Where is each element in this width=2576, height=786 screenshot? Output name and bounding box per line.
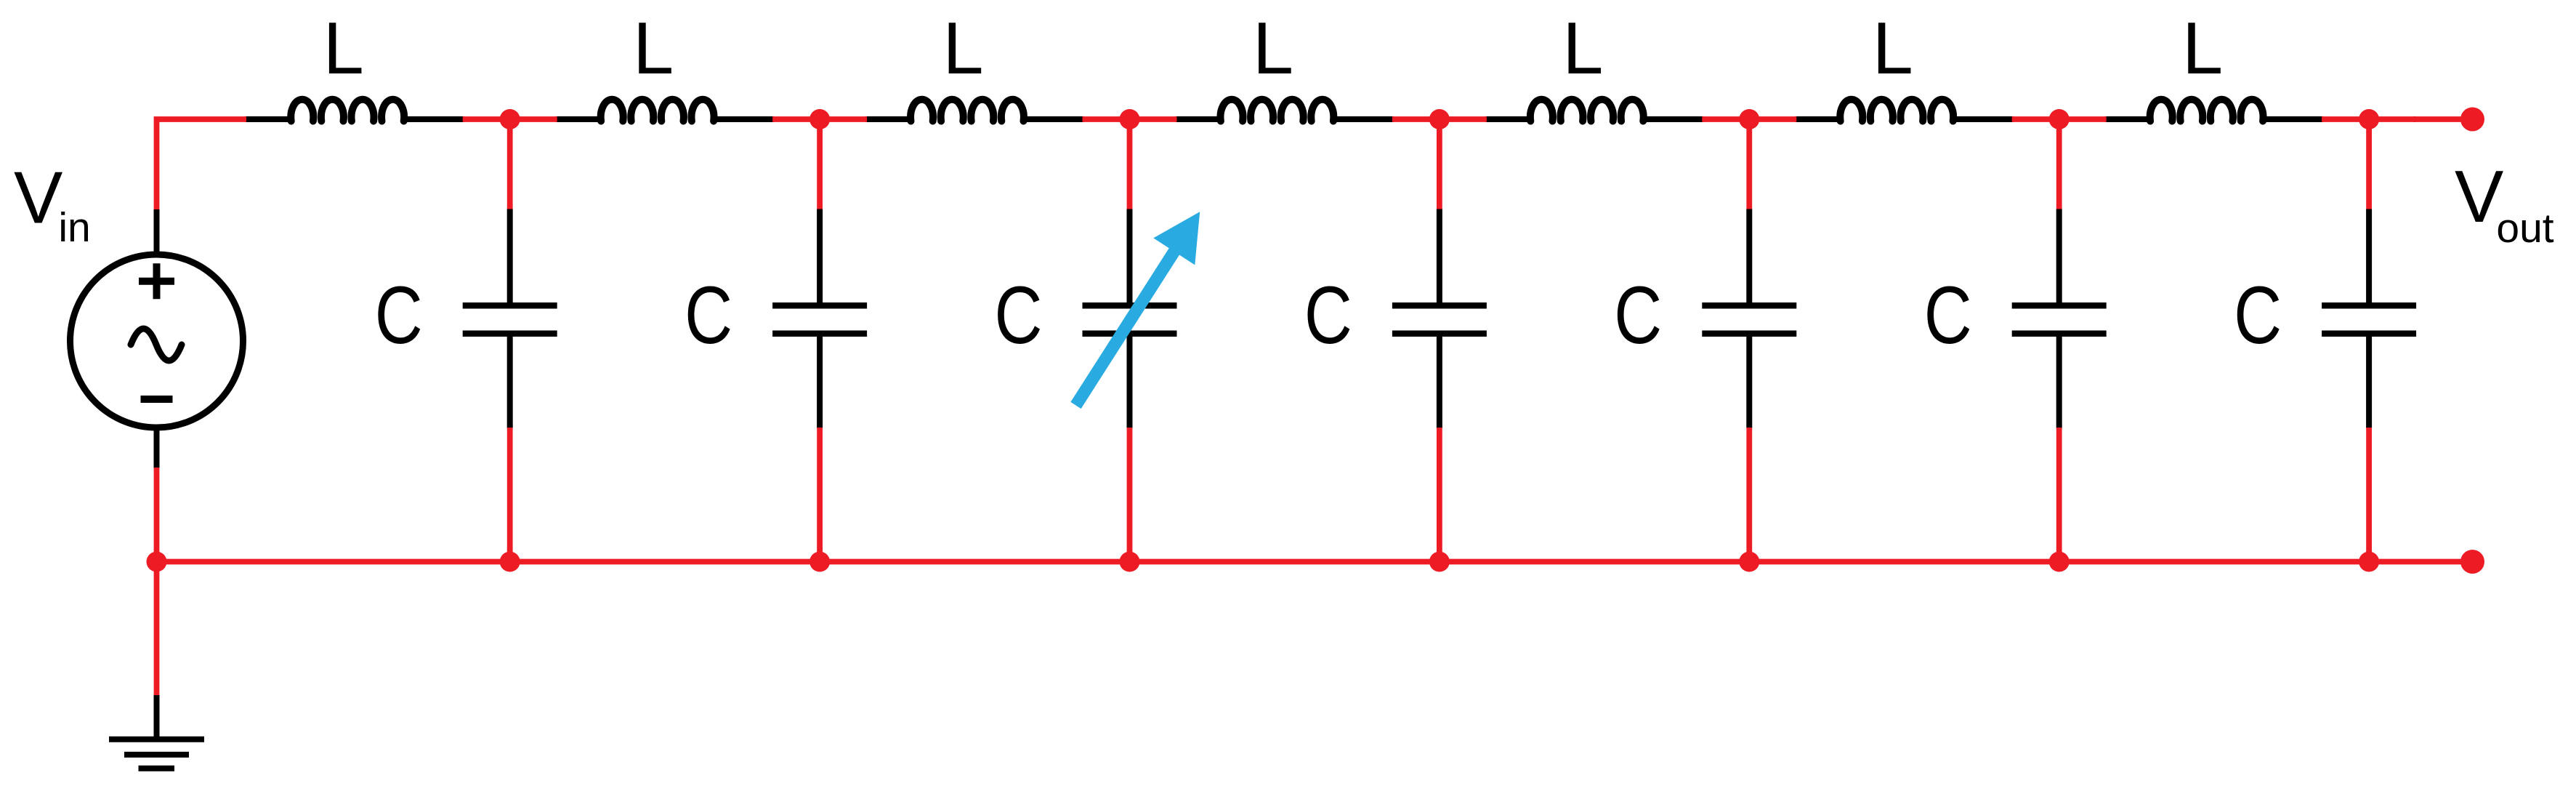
variable-capacitor arrow over C3: [1076, 212, 1200, 405]
svg-text:L: L: [633, 8, 674, 89]
svg-text:Vin: Vin: [14, 158, 91, 252]
wire red segment at top node 5: [1702, 116, 1796, 122]
wire top rail black lead from L1 to node 1: [405, 116, 464, 122]
wire top rail black lead from node 3 into L4: [1176, 116, 1222, 122]
svg-text:C: C: [375, 270, 423, 361]
junction node 4 bottom: [1429, 552, 1450, 572]
svg-text:L: L: [942, 8, 983, 89]
junction node 5 bottom: [1739, 552, 1759, 572]
ground: [109, 695, 204, 769]
svg-text:L: L: [1562, 8, 1603, 89]
inductor L2: [601, 100, 714, 121]
wire top rail black lead from node 1 into L2: [556, 116, 602, 122]
svg-text:L: L: [1253, 8, 1293, 89]
junction node 6 bottom: [2049, 552, 2070, 572]
svg-text:C: C: [995, 270, 1043, 361]
terminal bottom-right: [2460, 550, 2484, 574]
capacitor C6 (shunt): [2012, 119, 2107, 562]
inductor L6: [1840, 100, 1953, 121]
terminal Vout top-right: [2460, 108, 2484, 132]
wire red bottom rail (ground net): [157, 559, 2473, 565]
junction bottom-left below source: [147, 552, 167, 572]
junction node 3 bottom: [1120, 552, 1140, 572]
svg-text:C: C: [1924, 270, 1972, 361]
junction node 1 top: [500, 109, 520, 129]
svg-text:C: C: [685, 270, 732, 361]
AC voltage source Vin: [70, 209, 243, 468]
capacitor C2 (shunt): [772, 119, 867, 562]
wire top rail black lead into L1: [245, 116, 293, 122]
inductor L3: [911, 100, 1024, 121]
wire red from node 7 to Vout terminal: [2413, 116, 2472, 122]
wire red segment at top node 1: [463, 116, 557, 122]
wire red top-left corner from Vin source to L1: [157, 119, 247, 210]
junction node 7 bottom: [2359, 552, 2379, 572]
junction node 2 top: [809, 109, 830, 129]
wire red segment at top node 6: [2012, 116, 2107, 122]
wire top rail black lead from node 2 into L3: [865, 116, 912, 122]
junction node 1 bottom: [500, 552, 520, 572]
capacitor C1 (shunt): [463, 119, 557, 562]
capacitor C4 (shunt): [1392, 119, 1487, 562]
wire top rail black lead from L7 to node 7: [2264, 116, 2323, 122]
svg-text:C: C: [1614, 270, 1662, 361]
svg-text:L: L: [323, 8, 364, 89]
wire top rail black lead from L6 to node 6: [1954, 116, 2014, 122]
wire top rail black lead from L4 to node 4: [1334, 116, 1394, 122]
wire top rail black lead from L3 to node 3: [1025, 116, 1084, 122]
wire red segment at top node 4: [1392, 116, 1487, 122]
wire red segment at top node 3: [1083, 116, 1177, 122]
junction node 2 bottom: [809, 552, 830, 572]
junction node 6 top: [2049, 109, 2070, 129]
inductor L7: [2150, 100, 2264, 121]
capacitor C5 (shunt): [1702, 119, 1796, 562]
junction node 3 top: [1120, 109, 1140, 129]
svg-text:C: C: [1304, 270, 1352, 361]
svg-text:Vout: Vout: [2455, 156, 2554, 252]
capacitor C7 (shunt): [2322, 119, 2416, 562]
inductor L5: [1530, 100, 1644, 121]
wire top rail black lead from node 4 into L5: [1485, 116, 1532, 122]
wire top rail black lead from node 5 into L6: [1795, 116, 1841, 122]
wire red segment at top node 7: [2322, 116, 2416, 122]
svg-text:L: L: [2182, 8, 2223, 89]
wire top rail black lead from L2 to node 2: [714, 116, 774, 122]
capacitor C3 (shunt): [1083, 119, 1177, 562]
wire top rail black lead from node 6 into L7: [2105, 116, 2152, 122]
svg-text:C: C: [2234, 270, 2282, 361]
junction node 7 top: [2359, 109, 2379, 129]
inductor L4: [1220, 100, 1333, 121]
svg-text:L: L: [1873, 8, 1913, 89]
junction node 5 top: [1739, 109, 1759, 129]
inductor L1: [291, 100, 404, 121]
junction node 4 top: [1429, 109, 1450, 129]
wire red from source through bottom rail to ground: [154, 468, 160, 697]
wire red segment at top node 2: [772, 116, 867, 122]
wire top rail black lead from L5 to node 5: [1644, 116, 1703, 122]
